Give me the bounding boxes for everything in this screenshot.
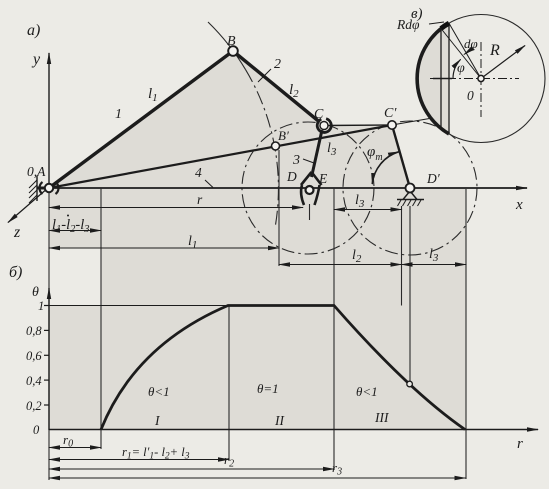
svg-text:C′: C′ [384, 106, 397, 121]
svg-text:B: B [227, 34, 236, 49]
svg-text:II: II [274, 413, 285, 428]
svg-text:0: 0 [33, 423, 40, 437]
svg-text:r: r [197, 192, 203, 207]
svg-text:θ: θ [32, 285, 39, 300]
svg-text:0,6: 0,6 [26, 349, 42, 363]
svg-text:φ: φ [457, 61, 465, 76]
svg-text:0: 0 [467, 88, 474, 103]
svg-text:l1: l1 [148, 86, 158, 104]
svg-text:z: z [13, 224, 21, 241]
svg-text:R: R [489, 42, 500, 59]
svg-text:0,8: 0,8 [26, 324, 42, 338]
svg-text:0,2: 0,2 [26, 399, 42, 413]
svg-text:θ<1: θ<1 [356, 384, 378, 399]
svg-text:r2: r2 [224, 452, 234, 470]
svg-text:x: x [515, 197, 523, 213]
svg-text:Rdφ: Rdφ [396, 17, 420, 32]
svg-text:2: 2 [274, 57, 281, 72]
svg-text:dφ: dφ [464, 36, 478, 51]
svg-text:4: 4 [195, 165, 202, 180]
svg-text:0,4: 0,4 [26, 374, 42, 388]
svg-text:0,A: 0,A [27, 164, 46, 179]
svg-text:3: 3 [292, 153, 300, 168]
svg-text:б): б) [9, 264, 22, 281]
svg-text:D: D [286, 169, 297, 184]
svg-text:B′: B′ [278, 128, 289, 143]
svg-text:1: 1 [38, 299, 44, 313]
svg-text:III: III [374, 410, 390, 425]
svg-text:θ<1: θ<1 [148, 384, 170, 399]
svg-text:а): а) [27, 22, 40, 39]
svg-text:1: 1 [115, 107, 122, 122]
svg-text:r: r [517, 436, 523, 452]
svg-text:l2: l2 [289, 82, 299, 100]
svg-text:E: E [318, 171, 328, 186]
svg-text:r0: r0 [63, 432, 73, 450]
svg-text:y: y [31, 51, 41, 68]
svg-text:r3: r3 [332, 460, 342, 478]
svg-text:D′: D′ [426, 171, 441, 186]
svg-text:θ=1: θ=1 [257, 381, 279, 396]
svg-text:C: C [314, 107, 324, 122]
